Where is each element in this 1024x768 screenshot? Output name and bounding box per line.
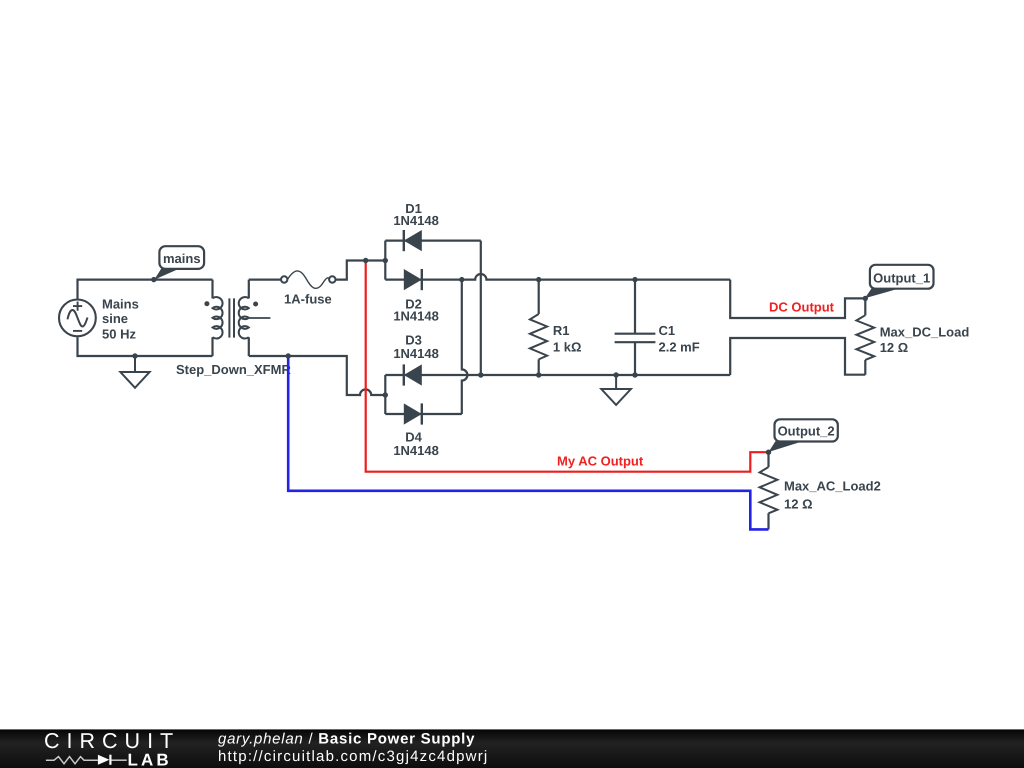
- svg-text:1N4148: 1N4148: [393, 213, 439, 228]
- svg-text:gary.phelan / Basic Power Supp: gary.phelan / Basic Power Supply: [218, 731, 475, 748]
- wire D1 branch top: [385, 240, 481, 242]
- flag Output_1: [865, 265, 934, 298]
- label V1 value: [102, 296, 139, 341]
- logo resistor-diode glyph: [46, 755, 127, 765]
- wire fuse to bridge input A: [336, 261, 386, 280]
- svg-text:1N4148: 1N4148: [393, 308, 439, 323]
- node red tap: [363, 258, 368, 263]
- node D2 cathode: [459, 277, 464, 282]
- wire bridge left vertical lower: [384, 375, 386, 414]
- diode D3: [404, 364, 422, 385]
- node C1 top: [632, 277, 637, 282]
- svg-text:Step_Down_XFMR: Step_Down_XFMR: [176, 362, 291, 377]
- svg-text:sine: sine: [102, 311, 128, 326]
- node bridge input B: [383, 392, 388, 397]
- node R1 top: [536, 277, 541, 282]
- label Max_AC_Load2: [784, 479, 881, 512]
- fuse F1 1A-fuse: [281, 271, 335, 288]
- label D3: [393, 333, 439, 362]
- diode D1: [404, 230, 422, 251]
- svg-text:R1: R1: [553, 323, 570, 338]
- transformer T1 Step_Down_XFMR: [204, 280, 270, 356]
- svg-text:Max_AC_Load2: Max_AC_Load2: [784, 479, 881, 494]
- diode D2: [404, 269, 422, 290]
- svg-text:http://circuitlab.com/c3gj4zc4: http://circuitlab.com/c3gj4zc4dpwrj: [218, 748, 488, 765]
- label C1: [659, 323, 700, 355]
- wire bridge left vertical upper: [384, 241, 386, 280]
- resistor Max_DC_Load: [856, 298, 874, 374]
- node R1 bottom: [536, 372, 541, 377]
- wire mains loop bottom: [78, 337, 213, 356]
- wire D2-D4 vertical with hop: [462, 280, 468, 414]
- svg-text:mains: mains: [163, 251, 201, 266]
- wire D2 rail with hop: [385, 274, 730, 280]
- wire DC output lower: [730, 338, 865, 375]
- svg-text:1N4148: 1N4148: [393, 443, 439, 458]
- label D4: [393, 429, 439, 458]
- svg-text:1A-fuse: 1A-fuse: [284, 291, 332, 306]
- label D1: [393, 201, 439, 228]
- svg-text:Max_DC_Load: Max_DC_Load: [880, 325, 970, 340]
- node source bottom: [132, 353, 137, 358]
- resistor R1: [530, 280, 547, 375]
- node ground2 tap: [613, 372, 618, 377]
- svg-text:50 Hz: 50 Hz: [102, 326, 136, 341]
- footer bar: [0, 729, 1024, 768]
- wire secondary bottom with hop over red: [249, 356, 385, 395]
- resistor Max_AC_Load2: [760, 452, 778, 529]
- flag mains: [154, 246, 204, 280]
- label Max_DC_Load: [880, 325, 970, 356]
- svg-text:LAB: LAB: [128, 751, 172, 768]
- wire secondary top to fuse: [249, 279, 281, 281]
- wire D4 branch: [385, 413, 462, 415]
- svg-text:Output_2: Output_2: [778, 424, 835, 439]
- svg-text:Output_1: Output_1: [873, 270, 930, 285]
- wire D1-D3 vertical: [480, 241, 482, 375]
- wire DC output upper: [730, 280, 865, 318]
- node secondary bottom tap: [286, 353, 291, 358]
- svg-text:Mains: Mains: [102, 296, 139, 311]
- svg-text:2.2 mF: 2.2 mF: [659, 340, 700, 355]
- label D2: [393, 297, 439, 324]
- wire mains loop top: [78, 280, 213, 299]
- node bridge input A: [383, 258, 388, 263]
- node D3 rail junction: [478, 372, 483, 377]
- voltage source V1 (Mains): [59, 300, 96, 337]
- wire red My AC Output net: [366, 261, 769, 472]
- node mains (dot): [151, 277, 156, 282]
- wire blue return net: [288, 356, 768, 529]
- wire D3 rail: [385, 374, 730, 376]
- diode D4: [404, 403, 422, 424]
- ground G2: [601, 375, 631, 405]
- svg-text:DC Output: DC Output: [769, 300, 835, 315]
- label R1: [553, 323, 582, 355]
- svg-text:12 Ω: 12 Ω: [880, 340, 909, 355]
- node Output_1: [863, 296, 868, 301]
- ground G1: [120, 356, 149, 388]
- node C1 bottom: [632, 372, 637, 377]
- svg-text:1 kΩ: 1 kΩ: [553, 340, 582, 355]
- svg-text:1N4148: 1N4148: [393, 346, 439, 361]
- flag Output_2: [769, 419, 838, 452]
- svg-text:C1: C1: [659, 323, 676, 338]
- svg-text:My AC Output: My AC Output: [557, 453, 644, 468]
- svg-text:12 Ω: 12 Ω: [784, 497, 813, 512]
- node Output_2: [766, 450, 771, 455]
- capacitor C1: [615, 280, 656, 375]
